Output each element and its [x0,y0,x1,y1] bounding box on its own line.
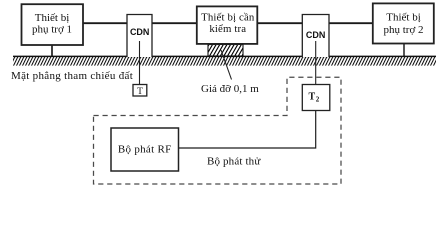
svg-text:Bộ phát RF: Bộ phát RF [118,143,172,155]
svg-text:Mặt phẳng tham chiếu đất: Mặt phẳng tham chiếu đất [11,70,133,82]
svg-text:phụ trợ 1: phụ trợ 1 [32,24,72,36]
svg-text:kiểm tra: kiểm tra [209,23,246,35]
svg-text:Bộ phát thử: Bộ phát thử [207,155,261,167]
svg-text:T: T [137,87,143,97]
svg-text:Thiết bị: Thiết bị [386,12,421,24]
svg-text:Thiết bị cần: Thiết bị cần [201,11,255,23]
svg-text:CDN: CDN [130,27,150,37]
svg-text:CDN: CDN [306,30,326,40]
svg-text:Giá đỡ 0,1 m: Giá đỡ 0,1 m [201,83,259,95]
svg-text:T: T [308,92,315,103]
svg-text:phụ trợ 2: phụ trợ 2 [383,24,423,36]
svg-text:2: 2 [316,96,320,104]
svg-text:Thiết bị: Thiết bị [35,12,70,24]
